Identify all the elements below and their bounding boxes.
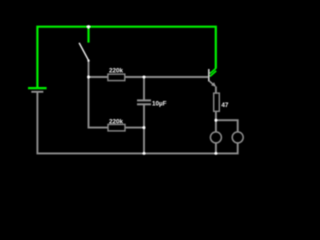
svg-text:220k: 220k bbox=[109, 118, 124, 125]
svg-text:10µF: 10µF bbox=[152, 101, 167, 108]
svg-text:220k: 220k bbox=[109, 67, 124, 74]
svg-text:47: 47 bbox=[221, 102, 229, 109]
